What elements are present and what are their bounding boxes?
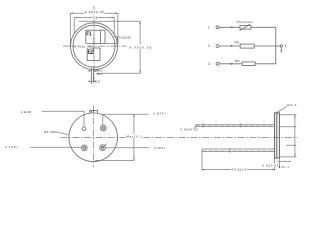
svg-text:4 GND: 4 GND (21, 110, 32, 114)
svg-text:2.3±0.05: 2.3±0.05 (119, 35, 131, 39)
svg-text:9.05±0.05: 9.05±0.05 (85, 10, 104, 14)
svg-text:TP1: TP1 (234, 40, 240, 44)
svg-text:3.45±0.05: 3.45±0.05 (74, 44, 91, 48)
svg-text:0.6±0.05: 0.6±0.05 (262, 163, 278, 167)
svg-text:7.6: 7.6 (93, 16, 98, 20)
svg-text:13.5±0.5: 13.5±0.5 (232, 168, 247, 172)
svg-text:Ø5.0800: Ø5.0800 (44, 130, 58, 134)
svg-text:1±0.1: 1±0.1 (279, 165, 289, 169)
svg-text:Max10.1: Max10.1 (126, 134, 142, 138)
svg-text:3 TP2+: 3 TP2+ (5, 145, 18, 149)
svg-text:8.95±0.05: 8.95±0.05 (129, 45, 151, 49)
svg-text:±0.1: ±0.1 (97, 72, 103, 76)
svg-text:F2: F2 (88, 49, 94, 55)
svg-text:0.45±0.05: 0.45±0.05 (180, 127, 198, 131)
svg-text:2: 2 (208, 44, 210, 48)
svg-text:1: 1 (208, 26, 210, 30)
svg-text:4: 4 (285, 44, 287, 48)
svg-text:R0.2: R0.2 (287, 103, 296, 107)
svg-text:0.8: 0.8 (96, 80, 100, 84)
svg-text:1 NTC+: 1 NTC+ (154, 112, 167, 116)
svg-text:TP2: TP2 (234, 59, 240, 63)
svg-text:F1: F1 (86, 31, 92, 37)
svg-text:2 TP1+: 2 TP1+ (154, 146, 166, 150)
svg-text:3: 3 (208, 62, 210, 66)
svg-text:Thermistor: Thermistor (237, 20, 253, 24)
